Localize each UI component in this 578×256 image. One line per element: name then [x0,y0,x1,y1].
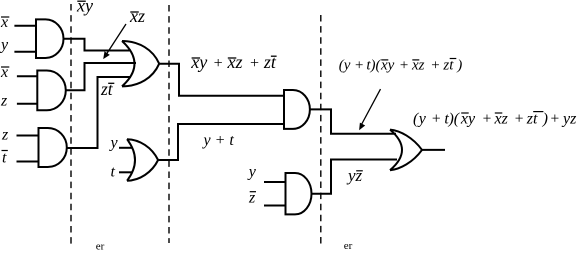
wire input z1 to U2 [17,103,37,105]
and-gate U6 ((y+t)(xy+xz+zt)) [284,90,310,129]
wire U8 output [422,149,445,151]
wire input t2 to U5 [119,171,132,173]
svg-text:(: ( [454,111,461,128]
svg-text:t)(: t)( [366,57,381,73]
svg-text:y: y [417,111,427,128]
label net xy+xz+zt (output of U4) [190,52,277,72]
wire U5 output to U6 bottom input (net y+t) [158,124,284,160]
svg-text:xy: xy [190,52,207,72]
dashed separator line 1 [70,4,72,246]
svg-text:er: er [96,241,105,252]
wire input y2 to U5 [119,147,132,149]
and-gate U3 (z.t) [39,128,67,167]
svg-text:z: z [0,93,8,110]
svg-text:y: y [0,37,9,54]
label zbar for input of and-gate U7 [248,190,256,207]
arrow pointing to net x.z [103,24,126,59]
wire input t to U3 [17,161,39,163]
svg-text:(y: (y [339,57,351,73]
wire input z3 to U7 [264,205,286,207]
svg-text:zt: zt [442,57,454,73]
svg-text:t: t [2,150,7,167]
svg-text:+: + [431,111,441,128]
svg-text:z: z [1,127,9,144]
svg-text:+: + [430,57,440,73]
and-gate U2 (x.z) [37,71,65,111]
label net xbar-z [129,6,145,26]
svg-text:): ) [456,57,462,73]
label tbar for input t1 [2,150,8,167]
wire U4 output to U6 top input (net xy+xz+zt) [159,64,284,96]
wire input x2 to U2 [17,75,37,77]
wire input y to U1 [14,51,36,53]
svg-text:+: + [482,111,492,128]
svg-text:+: + [550,111,560,128]
wire input z2 to U3 [17,135,39,137]
svg-text:zt: zt [100,79,114,99]
label net (y+t)(xy+xz+zt) (output of U6) [339,57,462,73]
svg-text:y: y [109,135,119,152]
and-gate U1 (x.y) [36,19,64,58]
label final output (y+t)(xy+xz+zt)+yz (output of U8) [413,111,577,128]
label xbar for input x1 [0,14,9,31]
label net z-tbar [100,79,114,99]
svg-text:y: y [247,164,257,181]
svg-text:zt: zt [263,52,277,72]
wire U3 output to U4 bottom input (net z.t) [67,77,131,148]
svg-text:zt: zt [526,111,538,128]
svg-text:yz: yz [561,111,577,128]
wire input y3 to U7 [264,181,286,183]
svg-text:): ) [542,111,548,128]
or-gate U4 (xy+xz+zt) [122,41,159,86]
svg-text:er: er [344,240,353,251]
or-gate U8 (final sum) [390,130,422,171]
svg-text:xy: xy [76,0,93,16]
svg-text:yz: yz [346,166,363,185]
label xbar for input x2 [0,64,9,81]
svg-text:xz: xz [227,52,243,72]
svg-text:xz: xz [129,6,145,26]
svg-text:+: + [213,55,224,72]
label net xbar-y [76,0,93,16]
wire U1 output to U4 top input (net x.y) [64,39,132,51]
wire U6 output to U8 top input [310,109,396,133]
wire U2 output to U4 middle input (net x.z) [66,63,136,90]
label net y-zbar (output of U7) [346,166,363,185]
or-gate U5 (y+t) [127,139,158,181]
svg-text:+: + [514,111,524,128]
svg-text:y + t: y + t [202,132,235,149]
svg-text:+: + [249,55,260,72]
wire input x1 to U1 [14,25,36,27]
svg-text:t: t [111,164,116,181]
wire U7 output to U8 bottom input (net y.z) [312,160,398,194]
dashed separator line 3 [320,15,322,244]
svg-text:+: + [399,57,409,73]
and-gate U7 (y.z) [286,173,312,214]
arrow pointing to U8 top input net [359,89,380,130]
dashed separator line 2 [168,5,170,243]
svg-text:+: + [354,57,364,73]
